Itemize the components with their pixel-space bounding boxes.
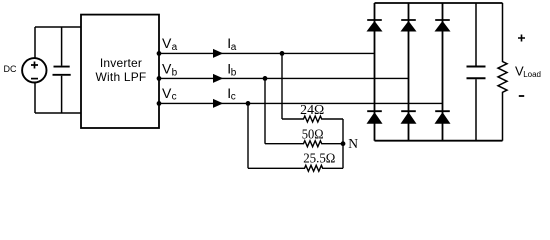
svg-text:Inverter: Inverter (100, 56, 142, 70)
svg-text:b: b (231, 67, 237, 78)
svg-text:c: c (172, 92, 177, 103)
svg-text:24Ω: 24Ω (300, 102, 324, 117)
svg-text:N: N (348, 136, 358, 151)
svg-text:c: c (231, 92, 236, 103)
svg-text:Load: Load (523, 70, 541, 79)
svg-text:V: V (162, 61, 172, 77)
svg-text:DC: DC (4, 64, 17, 74)
svg-text:25.5Ω: 25.5Ω (303, 151, 335, 166)
svg-text:b: b (172, 67, 178, 78)
svg-text:50Ω: 50Ω (302, 127, 324, 142)
svg-text:a: a (172, 42, 178, 53)
svg-text:V: V (162, 85, 172, 101)
svg-text:V: V (162, 35, 172, 51)
svg-text:With LPF: With LPF (96, 70, 147, 84)
svg-text:a: a (231, 42, 237, 53)
